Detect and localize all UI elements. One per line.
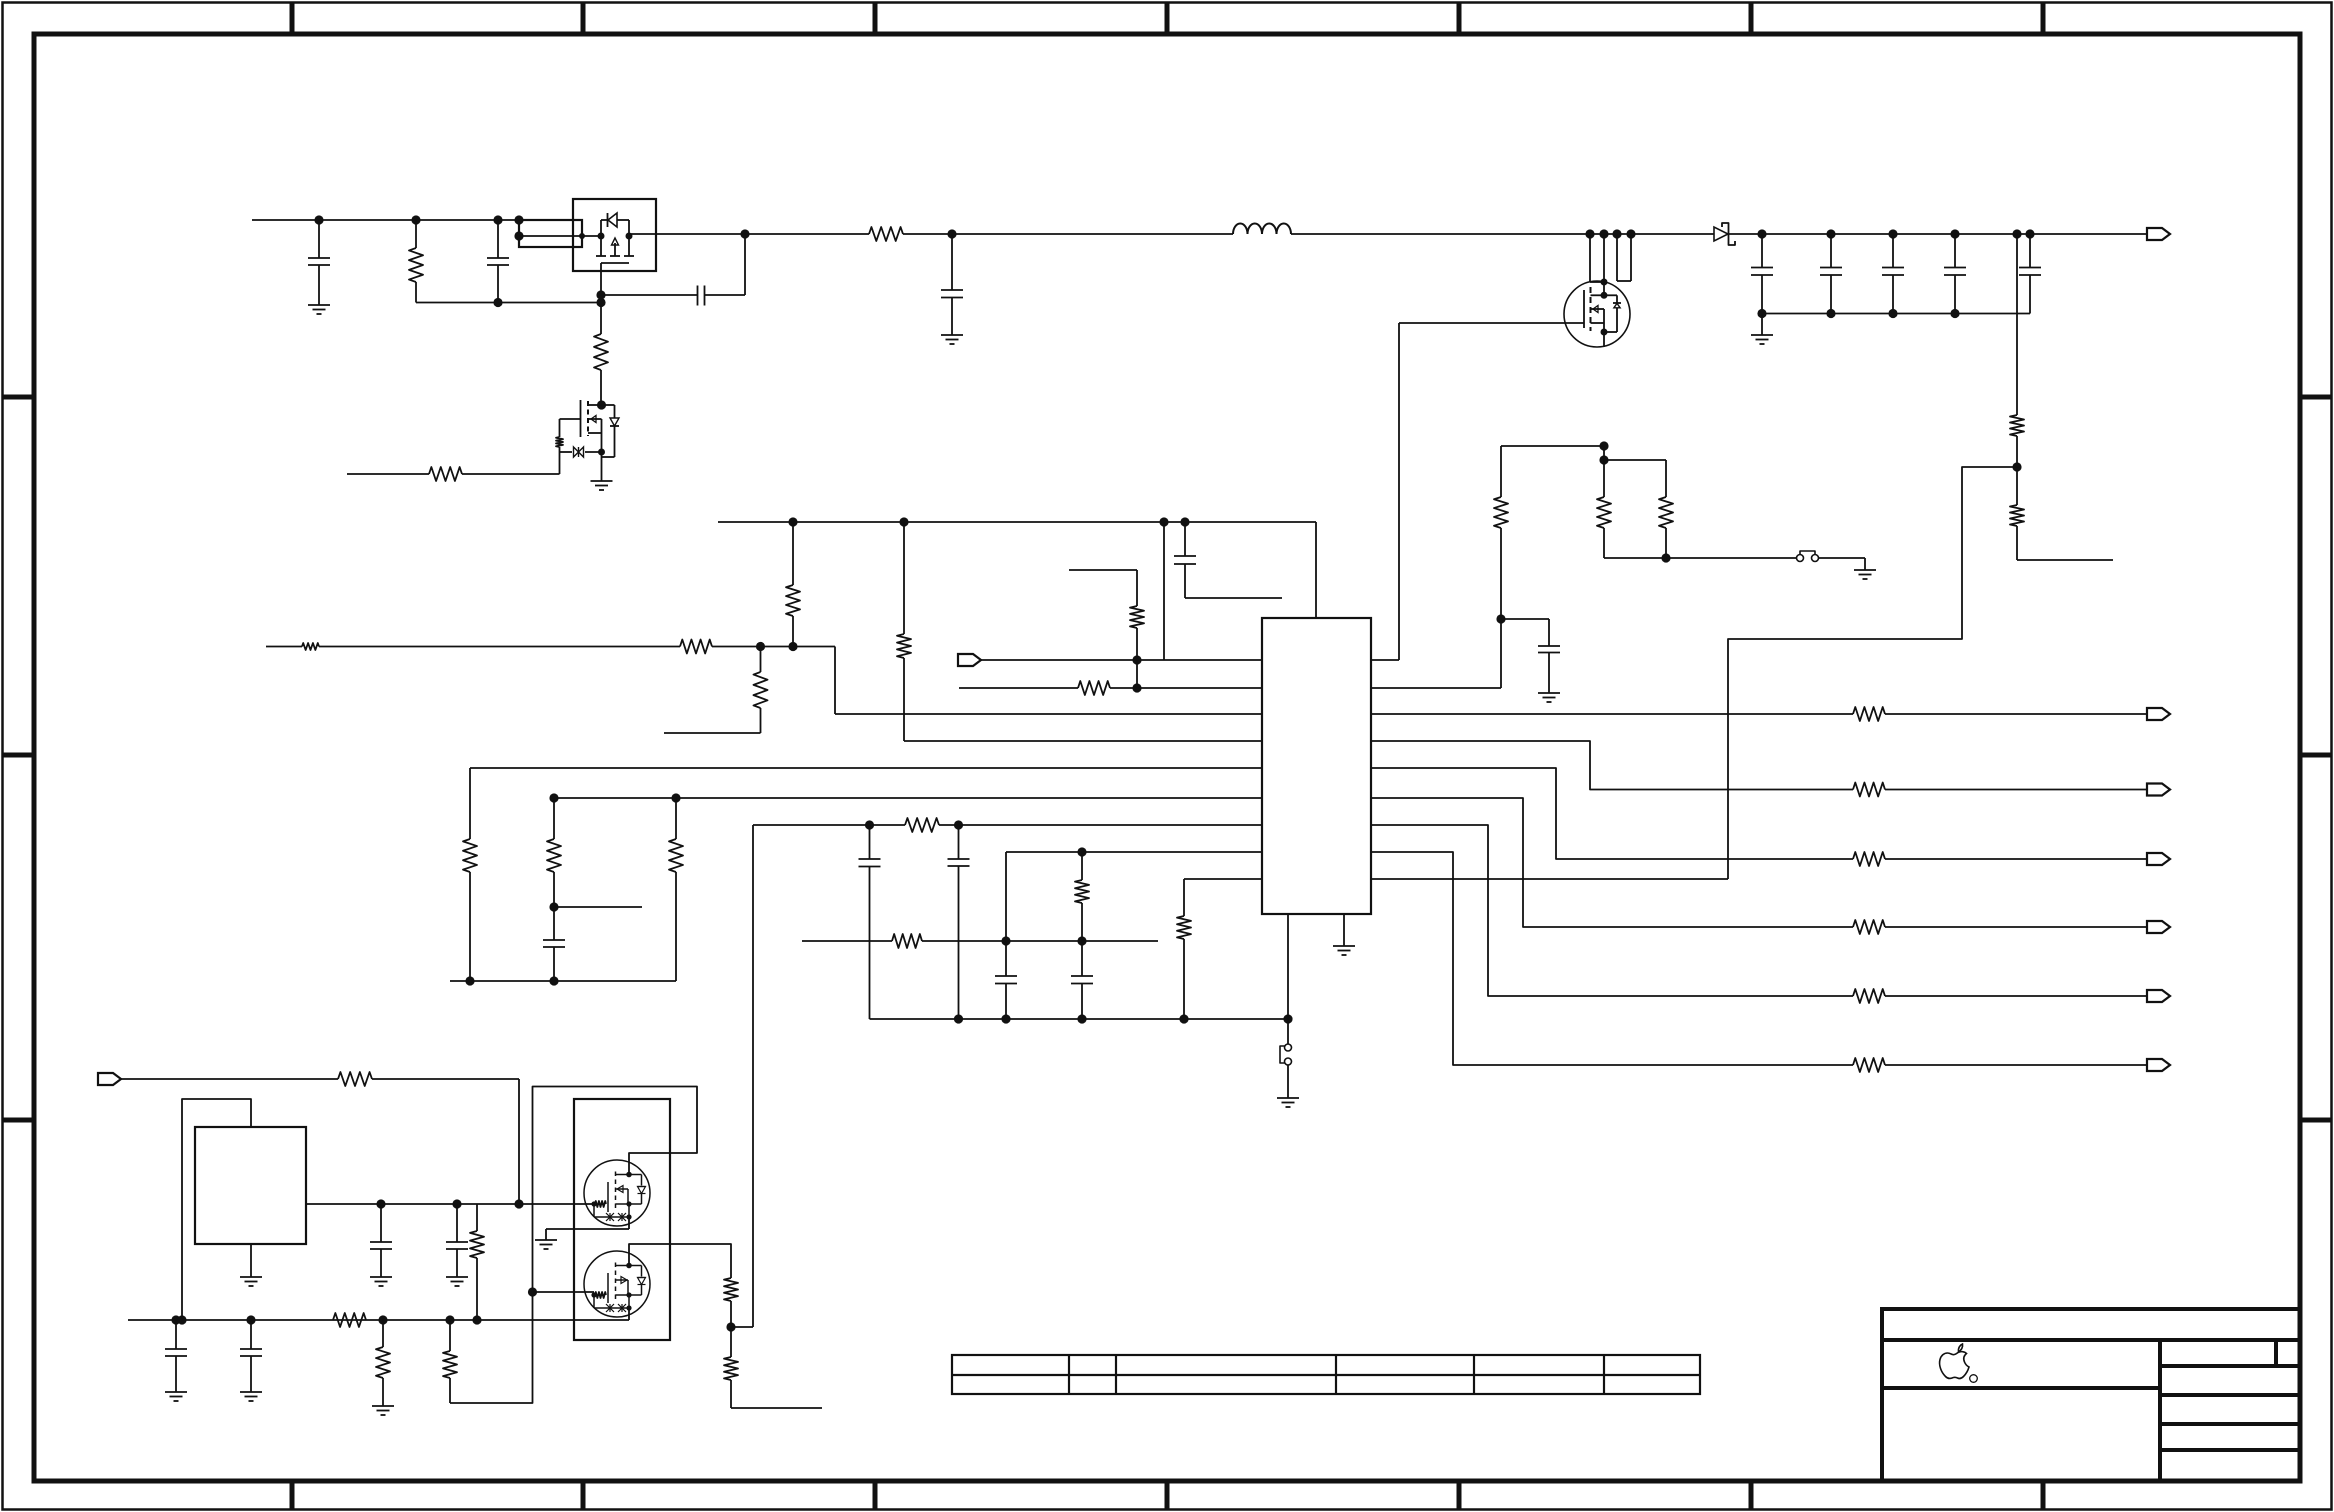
ground Q3 source <box>535 1240 557 1249</box>
node input junction A <box>314 215 323 224</box>
wire gate drive input <box>347 473 560 475</box>
port battery VBATT <box>98 1073 121 1085</box>
resistor R22 on supply <box>897 522 1262 741</box>
port output y859 <box>2147 853 2170 865</box>
resistor R16 <box>1177 916 1191 1019</box>
resistor R14 <box>892 934 922 948</box>
capacitor C14 <box>1071 941 1093 1019</box>
capacitor C9 <box>2019 234 2041 314</box>
ground cap bank <box>1751 314 1773 345</box>
node input junction C <box>493 215 502 224</box>
node sense top <box>1599 441 1608 450</box>
wire parallel resistor top <box>1604 459 1666 461</box>
node rail R19 <box>445 1315 454 1324</box>
node cap bank bottom 4 <box>1950 309 1959 318</box>
node rail C17 <box>171 1315 180 1324</box>
wire feedback to IC pin <box>1728 467 2017 879</box>
node rail R21 <box>378 1315 387 1324</box>
resistor R9 <box>680 640 712 654</box>
switch SW2 pushbutton <box>1280 1044 1292 1098</box>
node bottom rail x1082 <box>1077 1014 1086 1023</box>
resistor R20 inline <box>333 1313 366 1327</box>
capacitor C3 snubber <box>601 234 745 306</box>
wire battery gate line <box>306 1203 594 1205</box>
ground Q2b <box>591 481 613 490</box>
node cap bank top 2 <box>1826 229 1835 238</box>
wire pin825 joins divider <box>731 1326 753 1328</box>
node gate line left <box>514 231 523 240</box>
wire resistor to port y714 <box>1885 713 2147 715</box>
wire Q3 drain loop to Q4 gate <box>450 1087 697 1404</box>
resistor R18 <box>470 1204 484 1320</box>
capacitor C19 <box>859 825 881 1019</box>
diode Z1 gate zener <box>560 447 602 457</box>
resistor R11 <box>1069 570 1144 688</box>
diode D1 schottky <box>1714 223 1735 245</box>
capacitor C5 <box>1751 234 1773 314</box>
wire resistor to port y927 <box>1885 926 2147 928</box>
transistor Q3 protection NMOS <box>584 1160 650 1226</box>
node top rail at V3 <box>1159 517 1168 526</box>
ground below C15 <box>370 1277 392 1286</box>
resistor R17 inline <box>338 1072 372 1086</box>
wire Q4 source to rail <box>628 1308 630 1320</box>
node at R8 bottom <box>788 642 797 651</box>
node sense filter <box>1496 614 1505 623</box>
node bat line C16 <box>452 1199 461 1208</box>
resistor R12 <box>959 681 1262 695</box>
node pin825 capB <box>954 820 963 829</box>
ground IC pin 2 <box>1333 946 1355 955</box>
port output y927 <box>2147 921 2170 933</box>
node pin798 at R25 <box>671 793 680 802</box>
resistor R24 <box>547 798 561 907</box>
wire R9 to pin <box>712 646 835 648</box>
node rail loop <box>177 1315 186 1324</box>
resistor R8 <box>786 522 800 647</box>
wire resistor to port y1065 <box>1885 1064 2147 1066</box>
wire IC pin 798 net <box>554 797 1262 799</box>
capacitor C18 <box>240 1320 262 1392</box>
wire IC pin 825 net <box>753 824 1262 826</box>
node cap bank top 3 <box>1888 229 1897 238</box>
node bottom rail x958 <box>954 1014 963 1023</box>
capacitor C8 <box>1944 234 1966 314</box>
node Q1 source upper <box>596 290 605 299</box>
resistor series y927 <box>1853 920 1885 934</box>
node Q2 drain tap 1 <box>1585 229 1594 238</box>
resistor R23 <box>463 768 477 981</box>
capacitor C12 <box>543 907 565 981</box>
resistor series y859 <box>1853 852 1885 866</box>
inductor L1 <box>1233 224 1291 234</box>
wire tap stub <box>554 906 642 908</box>
transistor Q4 protection NMOS <box>584 1251 650 1317</box>
ground after SW1 <box>1854 570 1876 579</box>
ground below R21 <box>372 1406 394 1415</box>
capacitor C2 <box>487 220 509 303</box>
resistor R21 <box>376 1320 390 1406</box>
switch SW1 <box>1797 551 1866 570</box>
node R7 bottom <box>1661 553 1670 562</box>
wire Q3 gate entry <box>0 0 1 1</box>
node pin798 at R24 <box>549 793 558 802</box>
resistor R15 <box>1075 852 1089 941</box>
node therm at C13 <box>1001 936 1010 945</box>
capacitor C17 <box>165 1320 187 1392</box>
wire IC pin 660 right <box>1371 659 1399 661</box>
current sense box around input <box>519 220 582 247</box>
ground below SW2 <box>1277 1098 1299 1107</box>
ground BT1 <box>240 1244 262 1286</box>
node divider mid <box>2012 462 2021 471</box>
port input VSENSE <box>958 654 981 666</box>
ground below C16 <box>446 1277 468 1286</box>
node Q2 drain tap 3 <box>1612 229 1621 238</box>
resistor R13b <box>724 1327 822 1408</box>
node bat line VBATT <box>514 1199 523 1208</box>
package box around Q3 Q4 <box>574 1099 670 1340</box>
node main at C4 <box>947 229 956 238</box>
wire Q4 gate entry <box>533 1291 595 1293</box>
resistor series y1065 <box>1853 1058 1885 1072</box>
wire IC bottom pin 2 <box>1343 914 1345 946</box>
wire IC pin 798 to port <box>1371 798 1853 927</box>
resistor R29 inline <box>429 467 462 481</box>
resistor R28 gate <box>556 419 563 474</box>
ground below C17 <box>165 1392 187 1401</box>
transistor Q2 power NMOS in circle <box>1564 234 1631 347</box>
wire resistor to port y859 <box>1885 858 2147 860</box>
transistor Q1 PMOS with body diode <box>596 213 634 295</box>
node C2 bottom junction <box>493 298 502 307</box>
wire IC pin 879 right <box>1371 878 1728 880</box>
wire bottom rail of input filter <box>416 302 601 304</box>
port output y789.5 <box>2147 784 2170 796</box>
wire cap bank bottom rail <box>1762 313 2030 315</box>
node rail R18 <box>472 1315 481 1324</box>
node Q4 divider mid <box>726 1322 735 1331</box>
wire VSENSE to IC <box>981 659 1262 661</box>
wire IC pin 688 right <box>1371 619 1501 688</box>
wire IC pin 852 net <box>1006 852 1262 941</box>
node Q2b drain <box>597 400 606 409</box>
node top rail at C11 <box>1180 517 1189 526</box>
node at R10 <box>756 642 765 651</box>
resistor R13a <box>724 1278 738 1327</box>
wire IC pin 768 net <box>470 767 1262 769</box>
node Q1 source lower <box>596 298 605 307</box>
port output y996 <box>2147 990 2170 1002</box>
node rail at R23 <box>465 976 474 985</box>
node top rail at R22 <box>899 517 908 526</box>
wire IC bottom pin 1 <box>1287 914 1289 1044</box>
resistor R1 <box>409 220 423 303</box>
wire VBATT <box>121 1079 519 1204</box>
revision table <box>952 1355 1700 1394</box>
node rail C18 <box>246 1315 255 1324</box>
capacitor C20 <box>948 825 970 1019</box>
node Q4 gate tap <box>528 1287 537 1296</box>
port output y714 <box>2147 708 2170 720</box>
node bottom rail x1184 <box>1179 1014 1188 1023</box>
capacitor C15 <box>370 1204 392 1277</box>
resistor R3 divider top <box>2010 234 2024 467</box>
node input junction B <box>411 215 420 224</box>
resistor R2 inline <box>869 227 903 241</box>
wire IC pin 741 to port <box>1371 741 1853 790</box>
IC U1 controller <box>1262 618 1371 914</box>
ground below C4 <box>941 335 963 344</box>
node top rail at R8 <box>788 517 797 526</box>
diode Z2 drain zener <box>602 405 620 457</box>
wire IC pin 768 to port <box>1371 768 1853 859</box>
node pin825 capA <box>865 820 874 829</box>
resistor R4 divider bottom <box>2010 467 2113 560</box>
node therm at C14 <box>1077 936 1086 945</box>
wire gate line into Q1 <box>519 235 601 237</box>
wire IC pin 714 to port <box>1371 713 1853 715</box>
node bat line C15 <box>376 1199 385 1208</box>
resistor R25 <box>669 798 683 981</box>
capacitor C10 <box>1501 619 1560 693</box>
wire input net <box>252 219 519 221</box>
node cap bank bottom 3 <box>1888 309 1897 318</box>
Apple logo <box>1940 1344 1978 1382</box>
node bottom rail x1006 <box>1001 1014 1010 1023</box>
resistor R5 <box>1494 446 1508 619</box>
resistor series y996 <box>1853 989 1885 1003</box>
node cap bank top 4 <box>1950 229 1959 238</box>
port output VOUT <box>2147 228 2170 240</box>
node Q2 drain tap 2 <box>1599 229 1608 238</box>
wire sense ground rail <box>1604 557 1797 559</box>
resistor R19 <box>443 1320 457 1403</box>
node VSENSE at R11 <box>1132 655 1141 664</box>
node R24 tap <box>549 902 558 911</box>
resistor R6 <box>1597 446 1611 558</box>
node gate at box edge <box>579 233 585 239</box>
port output y1065 <box>2147 1059 2170 1071</box>
capacitor C1 <box>308 220 330 305</box>
resistor series y789.5 <box>1853 783 1885 797</box>
wire main switched output <box>629 233 2147 235</box>
capacitor C16 <box>446 1204 468 1277</box>
node bottom rail x1288 <box>1283 1014 1292 1023</box>
package box around Q1 <box>573 199 656 271</box>
node main at C9 <box>2025 229 2034 238</box>
wire Q4 drain to divider <box>629 1244 731 1278</box>
wire resistor to port y996 <box>1885 995 2147 997</box>
wire sense node <box>1501 445 1604 447</box>
resistor R27 gate bleed <box>594 303 608 406</box>
node Q2 drain tap 4 <box>1626 229 1635 238</box>
node Q2b source zener <box>598 449 605 456</box>
resistor R10 <box>664 647 768 734</box>
resistor R7 <box>1659 460 1673 558</box>
wire pin825 down to Q4 divider <box>752 825 754 1327</box>
transistor Q2b NMOS <box>560 400 602 437</box>
wire soft-start net <box>266 643 680 650</box>
wire IC pin 852 to port <box>1371 852 1853 1065</box>
battery connector BT1 <box>195 1127 306 1244</box>
capacitor C7 <box>1882 234 1904 314</box>
wire battery minus rail <box>128 1319 629 1321</box>
wire IC pin 825 to port <box>1371 825 1853 996</box>
wire Q3 source to ground <box>546 1217 629 1240</box>
node sense lower <box>1599 455 1608 464</box>
wire IC pin 879 net <box>1184 879 1262 916</box>
ground below C10 <box>1538 693 1560 702</box>
resistor series y714 <box>1853 707 1885 721</box>
node cap bank top 1 <box>1757 229 1766 238</box>
ground below C1 <box>308 305 330 314</box>
node small box top-left <box>514 215 523 224</box>
capacitor C6 <box>1820 234 1842 314</box>
wire to IC pin 714 <box>835 647 1262 715</box>
wire thermistor line <box>802 940 1158 942</box>
node R12 at R11 <box>1132 683 1141 692</box>
wire bottom ground rail <box>870 1018 1289 1020</box>
node cap bank bottom 1 <box>1757 309 1766 318</box>
capacitor C13 <box>995 941 1017 1019</box>
wire Q2 gate <box>1399 323 1584 660</box>
capacitor C4 <box>941 234 963 335</box>
node rail at C12 <box>549 976 558 985</box>
node snubber to output <box>740 229 749 238</box>
capacitor C11 <box>1174 522 1282 598</box>
wire resistor to port y789.5 <box>1885 789 2147 791</box>
wire V3 supply to FB pin <box>1163 522 1165 660</box>
title block <box>1882 1309 2300 1481</box>
node pin852 at R15 <box>1077 847 1086 856</box>
wire Q2b source to ground <box>601 433 603 481</box>
wire IC top supply pin <box>718 522 1316 618</box>
wire left ground rail <box>450 980 676 982</box>
node main at divider <box>2012 229 2021 238</box>
ground below C18 <box>240 1392 262 1401</box>
wire BT1 plus loop <box>182 1099 251 1320</box>
resistor R26 inline <box>905 818 939 832</box>
node cap bank bottom 2 <box>1826 309 1835 318</box>
